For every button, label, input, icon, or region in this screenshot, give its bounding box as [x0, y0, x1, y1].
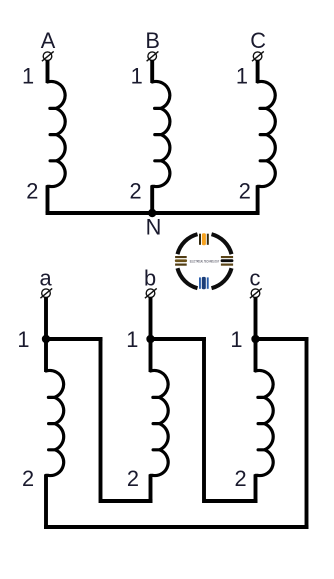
svg-text:2: 2	[235, 466, 247, 491]
logo top bars	[199, 233, 209, 245]
wire terminal b to coil	[149, 297, 153, 372]
svg-text:1: 1	[126, 327, 138, 352]
wire coil a bottom down to bottom bus	[44, 474, 48, 529]
wire coil A bottom to neutral bus	[46, 185, 50, 213]
svg-text:1: 1	[230, 327, 242, 352]
svg-text:A: A	[41, 28, 56, 53]
terminal A	[42, 51, 54, 61]
svg-text:2: 2	[22, 466, 34, 491]
wire branch 1c down to bottom bus	[305, 337, 309, 529]
svg-text:1: 1	[22, 63, 34, 88]
wire coil B bottom to neutral bus	[150, 185, 154, 213]
node dot at pin 1 of b	[146, 335, 154, 343]
svg-text:C: C	[250, 28, 266, 53]
svg-text:N: N	[146, 215, 162, 240]
svg-text:2: 2	[26, 178, 38, 203]
terminal c	[250, 288, 262, 298]
wire node 1a branch to x=100.5	[46, 337, 102, 341]
svg-text:2: 2	[127, 466, 139, 491]
wire branch 1b down	[202, 337, 206, 503]
neutral bus wire	[46, 211, 260, 215]
svg-text:c: c	[250, 265, 261, 290]
wire coil b bottom down	[149, 474, 153, 503]
node N junction dot	[148, 209, 156, 217]
logo right bars	[221, 256, 234, 266]
logo left bars	[175, 256, 187, 266]
node dot at pin 1 of a	[42, 335, 50, 343]
logo bottom bars	[199, 277, 209, 289]
primary winding coil C	[258, 81, 276, 186]
svg-text:a: a	[39, 265, 52, 290]
secondary winding coil c	[256, 370, 274, 475]
terminal a	[40, 288, 52, 298]
secondary winding coil b	[151, 370, 169, 475]
wire 1b to 2c horizontal	[204, 499, 257, 503]
wire terminal a to coil	[44, 297, 48, 372]
wire node 1c branch to x=306.5	[256, 337, 309, 341]
primary winding coil B	[152, 81, 170, 186]
wire coil C bottom to neutral bus	[256, 185, 260, 213]
svg-text:1: 1	[236, 63, 248, 88]
wire terminal c to coil	[254, 297, 258, 372]
terminal b	[145, 288, 157, 298]
svg-text:1: 1	[131, 63, 143, 88]
logo watermark ring	[178, 234, 232, 288]
secondary winding coil a	[46, 370, 64, 475]
bottom bus wire 1c to 2a	[44, 525, 308, 529]
node dot at pin 1 of c	[251, 335, 259, 343]
svg-text:b: b	[144, 265, 156, 290]
terminal C	[252, 51, 264, 61]
primary winding coil A	[48, 81, 66, 186]
wire node 1b branch to x=204.0	[151, 337, 206, 341]
wire terminal C to coil	[256, 60, 260, 83]
wire 1a to 2b horizontal	[101, 499, 153, 503]
svg-text:ELECTRICAL TECHNOLOGY: ELECTRICAL TECHNOLOGY	[190, 259, 220, 263]
svg-text:B: B	[145, 28, 160, 53]
wire coil c bottom down	[254, 474, 258, 503]
wire branch 1a down	[99, 337, 103, 503]
wire terminal B to coil	[150, 60, 154, 83]
svg-text:2: 2	[239, 178, 251, 203]
terminal B	[147, 51, 159, 61]
wire terminal A to coil	[46, 60, 50, 83]
svg-text:2: 2	[130, 178, 142, 203]
svg-text:1: 1	[17, 327, 29, 352]
